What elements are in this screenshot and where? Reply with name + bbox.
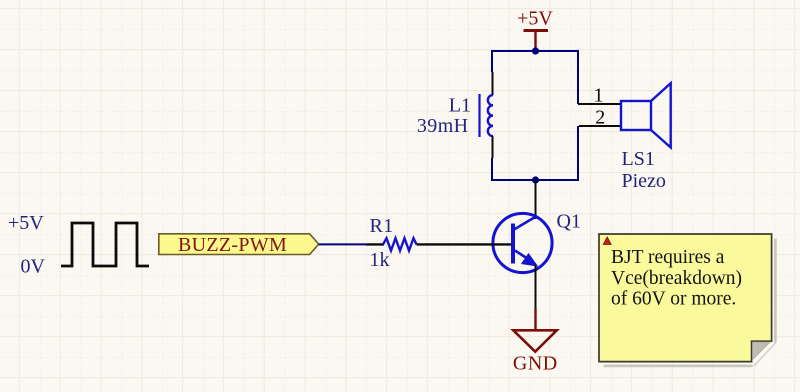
wire right branch lower bbox=[536, 126, 578, 180]
note shadow right bbox=[774, 239, 777, 343]
svg-text:2: 2 bbox=[595, 107, 605, 129]
svg-text:39mH: 39mH bbox=[417, 115, 469, 137]
svg-text:LS1: LS1 bbox=[622, 148, 655, 170]
junction bottom bbox=[532, 176, 539, 183]
svg-text:BUZZ-PWM: BUZZ-PWM bbox=[178, 234, 287, 256]
svg-text:L1: L1 bbox=[449, 95, 471, 117]
wire left branch upper bbox=[491, 50, 493, 72]
svg-text:BJT requires a: BJT requires a bbox=[611, 247, 725, 268]
transistor Q1 bbox=[493, 213, 552, 272]
svg-text:1: 1 bbox=[594, 85, 604, 107]
svg-text:+5V: +5V bbox=[517, 8, 553, 30]
svg-text:Piezo: Piezo bbox=[622, 170, 666, 192]
svg-text:GND: GND bbox=[513, 353, 558, 375]
svg-text:Q1: Q1 bbox=[557, 211, 581, 233]
wire right branch upper bbox=[577, 50, 579, 104]
port BUZZ-PWM bbox=[159, 234, 319, 256]
svg-text:+5V: +5V bbox=[8, 212, 44, 234]
junction top bbox=[532, 47, 539, 54]
note fold bbox=[753, 342, 771, 360]
note page edge white bbox=[753, 343, 772, 363]
svg-text:of 60V or more.: of 60V or more. bbox=[611, 289, 736, 310]
inductor L1 bbox=[480, 94, 494, 137]
svg-text:R1: R1 bbox=[370, 215, 394, 237]
svg-text:Vce(breakdown): Vce(breakdown) bbox=[611, 268, 742, 289]
power +5V bbox=[517, 8, 553, 52]
note shadow bottom bbox=[604, 365, 753, 368]
note body bbox=[599, 234, 772, 362]
pin R1 left bbox=[366, 243, 384, 245]
pin L1 bottom bbox=[492, 136, 494, 158]
pin Q1 collector bbox=[535, 180, 537, 219]
wire top rail bbox=[492, 50, 578, 52]
ground bbox=[513, 308, 558, 375]
pin 1 speaker bbox=[578, 103, 621, 105]
svg-text:0V: 0V bbox=[21, 256, 46, 278]
pin Q1 base bbox=[469, 243, 511, 245]
wire left branch lower bbox=[492, 158, 536, 180]
waveform pwm bbox=[61, 223, 149, 266]
speaker LS1 bbox=[621, 83, 671, 147]
wire port to R1 bbox=[319, 243, 366, 245]
pin Q1 emitter bbox=[535, 265, 537, 308]
pin 2 speaker bbox=[579, 125, 621, 127]
note marker bbox=[603, 237, 611, 245]
pin R1 right / wire to base bbox=[417, 243, 470, 245]
resistor R1 bbox=[383, 238, 417, 250]
svg-text:1k: 1k bbox=[370, 249, 390, 271]
pin L1 top bbox=[492, 72, 494, 95]
note page edge outline bbox=[754, 343, 775, 366]
